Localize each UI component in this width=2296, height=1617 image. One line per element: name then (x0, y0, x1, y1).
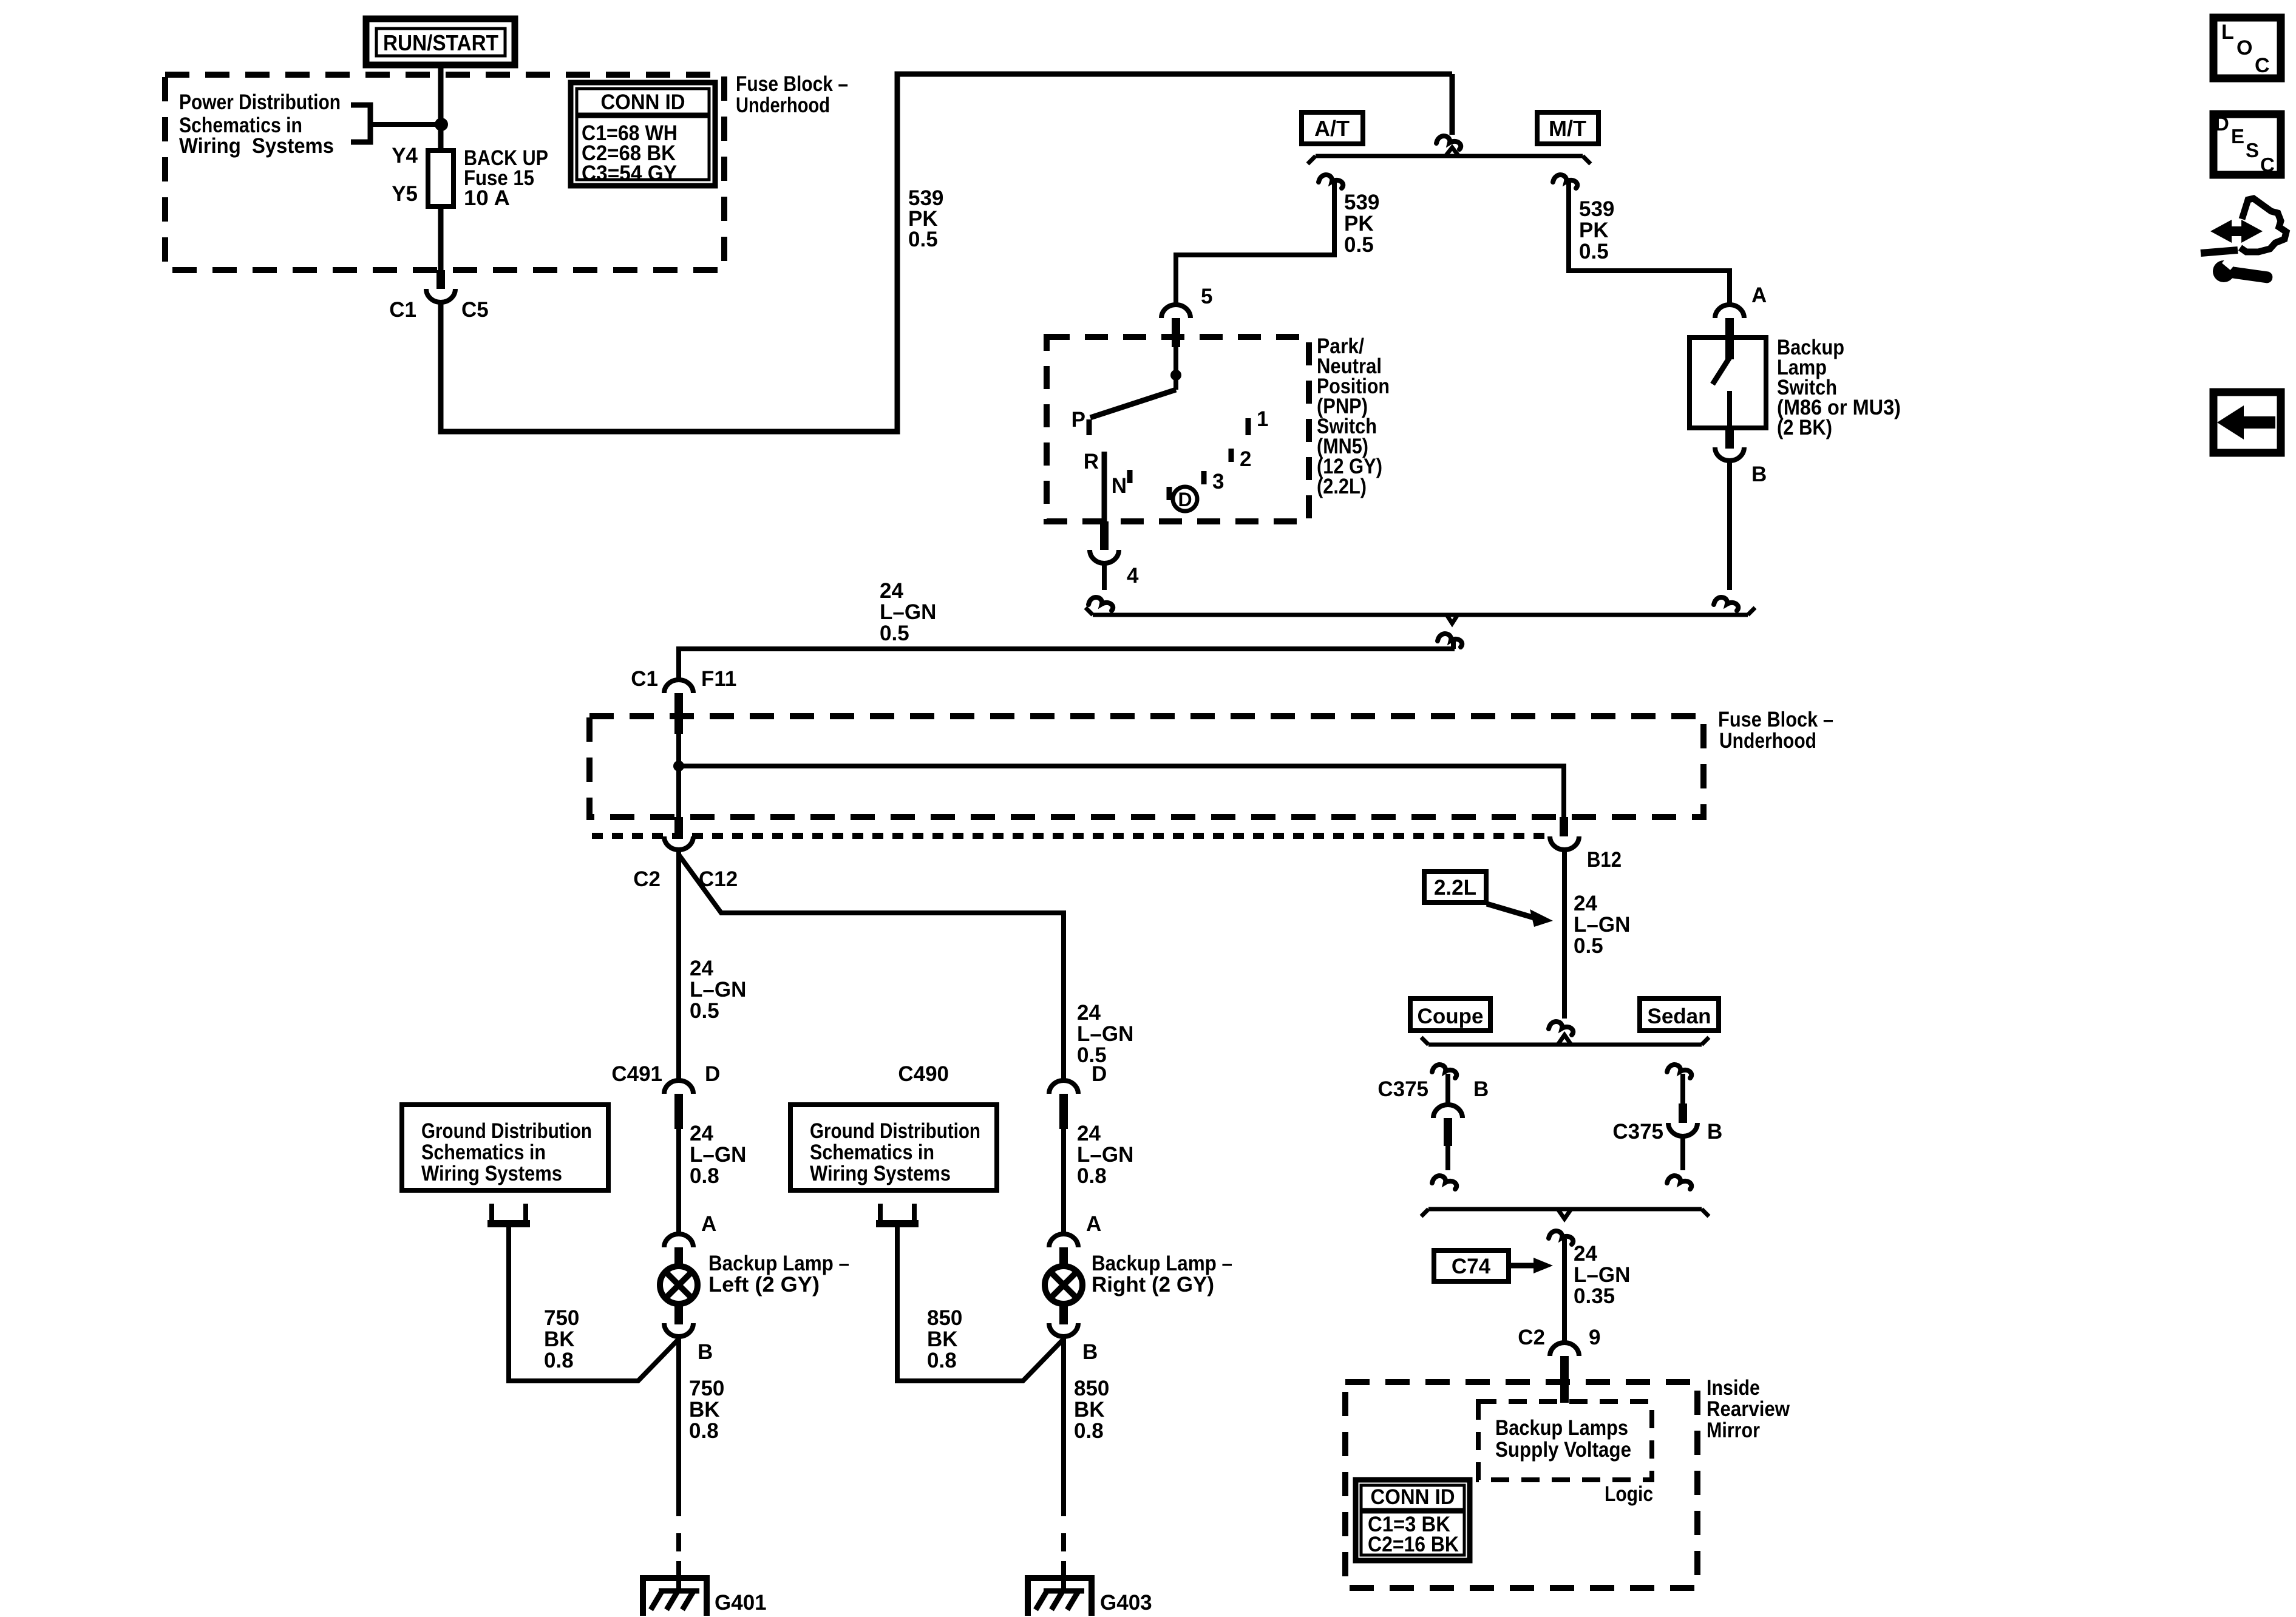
connector C1/C5 (389, 270, 489, 322)
svg-text:L–GN: L–GN (880, 600, 936, 624)
svg-text:F11: F11 (701, 667, 736, 691)
svg-text:Sedan: Sedan (1647, 1005, 1711, 1028)
connector C2/C12 (633, 817, 738, 891)
wire bracket to junction (370, 122, 443, 127)
connector B (backup lamp switch) (1715, 428, 1767, 486)
harness curl at rail stub end (1436, 136, 1461, 149)
svg-text:D: D (1092, 1062, 1107, 1086)
terminal 3 (1201, 471, 1207, 484)
CONN ID table (mirror) (1356, 1480, 1470, 1561)
svg-text:C3=54 GY: C3=54 GY (582, 161, 677, 185)
connector B (right lamp) (1049, 1323, 1098, 1364)
svg-text:O: O (2237, 36, 2252, 59)
wire fuse to C1/C5 (438, 206, 444, 273)
wire connector 4 to option merge (1102, 563, 1107, 590)
inside rearview mirror dashed box (1345, 1382, 1697, 1588)
fuse block underhood dashed box (middle) (589, 716, 1703, 817)
svg-text:Fuse Block –: Fuse Block – (736, 72, 848, 96)
svg-text:0.8: 0.8 (1077, 1164, 1107, 1188)
svg-text:RUN/START: RUN/START (383, 30, 498, 55)
connector A (backup lamp switch) (1715, 283, 1767, 359)
wire C2/C12 down to left lamp (676, 850, 681, 1082)
junction dot on RUN/START wire (435, 118, 448, 131)
connector C491/D (611, 1062, 720, 1129)
svg-text:CONN ID: CONN ID (1371, 1485, 1455, 1509)
svg-text:C74: C74 (1452, 1255, 1491, 1278)
wire C491 to lamp A (676, 1129, 681, 1234)
svg-text:C1: C1 (389, 298, 416, 322)
connector face dotted line (C2 row) (592, 833, 1549, 839)
wire switch B down to option merge (1727, 460, 1732, 590)
svg-text:750: 750 (544, 1306, 579, 1330)
CONN ID table (fuse block underhood) (571, 83, 715, 186)
svg-text:C: C (2255, 54, 2270, 77)
svg-text:24: 24 (1077, 1001, 1101, 1025)
svg-text:R: R (1084, 450, 1099, 473)
850 BK 0.8 label (to G403) (1074, 1377, 1109, 1443)
terminal D (circled) (1169, 487, 1197, 511)
wire B12 down to coupe/sedan split (1562, 850, 1567, 1019)
wire left ground bracket down (509, 1226, 679, 1381)
terminal 2 (1229, 449, 1234, 462)
dashed wire to G401 (676, 1498, 681, 1561)
svg-text:B: B (1707, 1120, 1722, 1144)
svg-text:24: 24 (1574, 1242, 1597, 1266)
svg-text:2.2L: 2.2L (1434, 876, 1476, 900)
fuse block underhood dashed box (top) (165, 75, 724, 270)
svg-text:C2: C2 (1518, 1326, 1545, 1349)
Ground Distribution note box (right) (790, 1105, 997, 1190)
svg-text:A: A (701, 1212, 716, 1236)
svg-text:5: 5 (1201, 285, 1212, 308)
svg-text:L–GN: L–GN (690, 978, 746, 1002)
svg-text:C2=16 BK: C2=16 BK (1368, 1533, 1459, 1556)
svg-text:0.5: 0.5 (908, 228, 938, 251)
svg-text:C2: C2 (633, 867, 661, 891)
svg-text:B: B (698, 1340, 713, 1364)
svg-text:N: N (1112, 474, 1127, 498)
svg-text:Ground Distribution: Ground Distribution (421, 1119, 592, 1143)
svg-text:3: 3 (1212, 470, 1224, 493)
svg-text:BK: BK (1074, 1398, 1105, 1422)
svg-text:A: A (1751, 283, 1767, 307)
24 L-GN 0.5 label (B12 wire) (1574, 892, 1630, 958)
A/T branch wire to PNP pin 5 (1176, 178, 1334, 303)
switch lower contact (1727, 391, 1732, 428)
terminal 1 (1246, 418, 1251, 435)
internal bus to B12 (679, 766, 1564, 817)
wire stub merge brace to feed line (1451, 640, 1456, 649)
M/T branch wire to backup lamp switch (1569, 178, 1730, 305)
connector 5 (PNP switch) (1161, 285, 1212, 347)
branch wire C12 to right lamp (679, 855, 1064, 1082)
svg-text:B: B (1473, 1077, 1489, 1101)
svg-text:(2 BK): (2 BK) (1777, 416, 1832, 439)
svg-text:A/T: A/T (1314, 116, 1350, 141)
back arrow icon box (2213, 392, 2281, 453)
svg-text:24: 24 (1574, 892, 1597, 915)
2.2L callout arrow (1487, 904, 1553, 927)
ground G403 (1028, 1578, 1152, 1616)
svg-text:D: D (2215, 112, 2229, 135)
svg-text:L–GN: L–GN (1077, 1022, 1133, 1046)
svg-text:Wiring Systems: Wiring Systems (810, 1162, 951, 1185)
DESC icon box (2213, 112, 2281, 176)
wire C375 coupe down (1445, 1146, 1450, 1170)
M/T branch curl (1553, 175, 1577, 188)
coupe/sedan option brace (1421, 1035, 1709, 1045)
svg-text:1: 1 (1257, 407, 1268, 431)
svg-text:PK: PK (1344, 212, 1374, 236)
svg-text:Wiring Systems: Wiring Systems (421, 1162, 562, 1185)
connector 4 (PNP output) (1090, 521, 1139, 588)
539 PK 0.5 label (main feed) (908, 186, 943, 251)
svg-text:Y4: Y4 (392, 144, 418, 168)
connector A (left lamp) (664, 1212, 716, 1268)
24 L-GN 0.5 label (feed) (880, 579, 936, 645)
connector C375 (sedan) (1612, 1103, 1722, 1144)
svg-text:Rearview: Rearview (1707, 1397, 1790, 1421)
svg-text:0.35: 0.35 (1574, 1284, 1615, 1308)
svg-text:Backup Lamps: Backup Lamps (1495, 1416, 1628, 1440)
svg-text:P: P (1072, 408, 1085, 432)
curl under merge brace (1549, 1231, 1573, 1244)
svg-text:BK: BK (927, 1327, 958, 1351)
terminal N (1127, 470, 1133, 483)
bracket to Power Distribution note (351, 105, 370, 142)
svg-text:750: 750 (689, 1377, 724, 1400)
wire RUN/START down to fuse (438, 65, 444, 153)
svg-text:(2.2L): (2.2L) (1317, 475, 1367, 498)
connector C490/D (898, 1062, 1107, 1129)
bracket under left ground box (487, 1204, 530, 1224)
M/T option box (1537, 112, 1598, 144)
PNP switch blade to P (1090, 390, 1176, 418)
svg-text:BK: BK (689, 1398, 720, 1422)
svg-text:0.8: 0.8 (689, 1419, 719, 1443)
wire right lamp B down (1061, 1338, 1066, 1498)
connector C1/F11 (631, 667, 736, 734)
svg-text:D: D (1178, 489, 1192, 510)
svg-text:539: 539 (1344, 191, 1379, 214)
LOC icon box (2213, 18, 2281, 78)
svg-text:Ground Distribution: Ground Distribution (810, 1119, 980, 1143)
wire stub from top rail down to option split (1450, 74, 1455, 135)
connector B (left lamp) (664, 1323, 713, 1364)
svg-text:0.5: 0.5 (1574, 934, 1603, 958)
svg-text:0.5: 0.5 (1579, 240, 1609, 263)
svg-text:B12: B12 (1587, 848, 1622, 872)
svg-text:24: 24 (690, 1122, 713, 1145)
svg-text:2: 2 (1240, 447, 1251, 471)
svg-text:L–GN: L–GN (1574, 1263, 1630, 1287)
svg-text:D: D (705, 1062, 720, 1086)
curl at bottom of sedan C375 branch (1667, 1176, 1691, 1189)
svg-text:C1: C1 (631, 667, 658, 691)
svg-text:0.8: 0.8 (690, 1164, 719, 1188)
PNP switch name label (1317, 334, 1390, 498)
terminal R wire (1102, 452, 1107, 521)
curl under merge brace (1438, 634, 1462, 647)
svg-text:0.5: 0.5 (690, 999, 719, 1023)
svg-text:0.5: 0.5 (1344, 233, 1374, 257)
C74 callout box (1434, 1250, 1509, 1281)
svg-text:B: B (1751, 463, 1767, 486)
Sedan option box (1640, 998, 1719, 1031)
backup lamp switch box (1690, 337, 1766, 428)
svg-text:Right (2 GY): Right (2 GY) (1092, 1273, 1214, 1297)
curl at top of sedan C375 branch (1667, 1065, 1691, 1078)
svg-text:Mirror: Mirror (1707, 1419, 1760, 1442)
svg-text:539: 539 (1579, 197, 1614, 221)
svg-text:Schematics in: Schematics in (810, 1141, 934, 1164)
svg-text:24: 24 (690, 957, 713, 980)
wire merge to C2 pin 9 (1562, 1239, 1567, 1343)
svg-text:L–GN: L–GN (690, 1143, 746, 1167)
24 L-GN 0.8 label (right) (1077, 1122, 1133, 1188)
wire right ground bracket down (897, 1226, 1064, 1381)
svg-text:Wiring Systems: Wiring Systems (179, 134, 334, 158)
539 PK 0.5 label (M/T branch) (1579, 197, 1614, 263)
svg-text:PK: PK (1579, 219, 1609, 242)
internal bus wire in fuse block (676, 734, 681, 817)
svg-text:C491: C491 (611, 1062, 662, 1086)
svg-text:10 A: 10 A (464, 186, 510, 210)
A/T option box (1302, 112, 1363, 144)
svg-text:E: E (2231, 125, 2244, 147)
svg-text:Power Distribution: Power Distribution (179, 90, 341, 114)
24 L-GN 0.5 label (left lamp) (690, 957, 746, 1023)
svg-text:Schematics in: Schematics in (421, 1141, 546, 1164)
24 L-GN 0.5 feed wire to fuse block (679, 649, 1455, 680)
2.2L callout box (1424, 872, 1486, 903)
connector A (right lamp) (1049, 1212, 1101, 1268)
svg-text:0.8: 0.8 (1074, 1419, 1104, 1443)
svg-text:Coupe: Coupe (1418, 1005, 1484, 1028)
connector B12 (1550, 817, 1622, 872)
svg-text:850: 850 (927, 1306, 962, 1330)
wire coupe branch to C375 (1445, 1074, 1450, 1105)
wire C490 to lamp A (1061, 1129, 1066, 1234)
wire C375 sedan down (1680, 1136, 1685, 1170)
backup lamp right (bulb) (1045, 1252, 1232, 1324)
PNP switch dashed box (1047, 337, 1309, 521)
svg-text:Supply Voltage: Supply Voltage (1495, 1438, 1631, 1462)
bracket under right ground box (876, 1204, 919, 1224)
C74 callout arrow (1509, 1258, 1553, 1273)
svg-text:0.8: 0.8 (544, 1349, 574, 1372)
svg-text:Backup Lamp –: Backup Lamp – (1092, 1252, 1232, 1275)
A/T - M/T option brace (1308, 147, 1591, 164)
svg-text:BK: BK (544, 1327, 575, 1351)
backup lamps supply voltage dashed box (1478, 1402, 1652, 1480)
A/T branch curl (1319, 175, 1343, 188)
svg-text:L–GN: L–GN (1574, 913, 1630, 937)
svg-text:C375: C375 (1612, 1120, 1663, 1144)
24 L-GN 0.8 label (left) (690, 1122, 746, 1188)
svg-text:24: 24 (1077, 1122, 1101, 1145)
backup lamp left (bulb) (660, 1252, 849, 1324)
svg-text:L: L (2221, 21, 2234, 44)
svg-text:0.5: 0.5 (880, 622, 909, 645)
750 BK 0.8 label (ground branch) (544, 1306, 579, 1372)
wire sedan branch to C375 (1680, 1074, 1685, 1103)
svg-text:G401: G401 (715, 1591, 767, 1615)
connector C375 (coupe) (1377, 1077, 1489, 1146)
svg-text:G403: G403 (1100, 1591, 1152, 1615)
svg-text:24: 24 (880, 579, 903, 603)
junction dot in fuse block (673, 761, 684, 771)
svg-text:Left (2 GY): Left (2 GY) (708, 1273, 820, 1297)
switch blade (1713, 358, 1730, 384)
wire left lamp B down (676, 1338, 681, 1498)
svg-text:CONN ID: CONN ID (601, 90, 685, 114)
svg-text:C5: C5 (461, 298, 489, 322)
Inside Rearview Mirror label (1707, 1376, 1790, 1442)
curl at end of switch B wire (1714, 597, 1738, 611)
fuse BACK UP Fuse 15 10 A (392, 144, 548, 210)
svg-text:Underhood: Underhood (1719, 729, 1816, 753)
coupe/sedan merge brace (1421, 1209, 1709, 1219)
terminal P (1087, 419, 1092, 435)
ground G401 (643, 1578, 767, 1616)
svg-text:9: 9 (1589, 1326, 1600, 1349)
svg-text:Y5: Y5 (392, 182, 418, 206)
svg-text:Underhood: Underhood (736, 93, 830, 117)
svg-text:Fuse Block –: Fuse Block – (1718, 708, 1833, 731)
RUN/START feed box (366, 19, 515, 65)
svg-text:0.8: 0.8 (927, 1349, 957, 1372)
svg-text:Logic: Logic (1605, 1482, 1653, 1506)
service/diagnostics icon (car outline, double arrow, wrench) (2201, 198, 2286, 283)
svg-text:C375: C375 (1377, 1077, 1428, 1101)
connector C2 pin 9 (mirror) (1518, 1326, 1600, 1403)
850 BK 0.8 label (ground branch) (927, 1306, 962, 1372)
curl at end of pin 4 wire (1089, 597, 1113, 611)
svg-text:A: A (1086, 1212, 1101, 1236)
svg-text:C490: C490 (898, 1062, 949, 1086)
dashed wire to G403 (1061, 1498, 1066, 1561)
Coupe option box (1410, 998, 1490, 1031)
wire C1/C5 down, right, up to top rail (441, 74, 1452, 432)
svg-text:M/T: M/T (1549, 116, 1586, 141)
curl at bottom of coupe C375 branch (1432, 1176, 1456, 1189)
curl at top of coupe C375 branch (1432, 1065, 1456, 1078)
option merge brace (pin 4 / switch B) (1085, 608, 1755, 623)
24 L-GN 0.35 label (mirror feed) (1574, 1242, 1630, 1308)
svg-text:S: S (2246, 139, 2259, 161)
svg-text:B: B (1082, 1340, 1098, 1364)
svg-text:850: 850 (1074, 1377, 1109, 1400)
Power Distribution reference note (179, 90, 341, 158)
curl at end of B12 wire (1549, 1022, 1573, 1035)
svg-text:4: 4 (1127, 564, 1139, 588)
539 PK 0.5 label (A/T branch) (1344, 191, 1379, 257)
24 L-GN 0.5 label (right lamp) (1077, 1001, 1133, 1067)
svg-text:Backup Lamp –: Backup Lamp – (708, 1252, 849, 1275)
svg-text:C: C (2260, 154, 2275, 176)
PNP internal wire from pin 5 (1173, 345, 1178, 390)
backup lamp switch label (1777, 336, 1901, 439)
svg-text:L–GN: L–GN (1077, 1143, 1133, 1167)
svg-text:Inside: Inside (1707, 1376, 1760, 1400)
750 BK 0.8 label (to G401) (689, 1377, 724, 1443)
Ground Distribution note box (left) (402, 1105, 608, 1190)
PNP junction dot (1170, 370, 1181, 381)
